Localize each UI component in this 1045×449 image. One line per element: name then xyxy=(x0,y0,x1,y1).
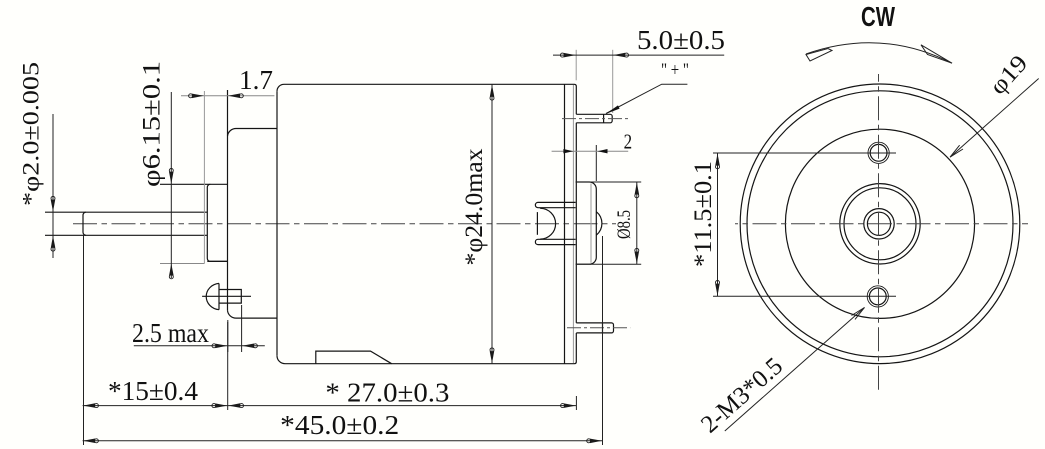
front view seam circle xyxy=(747,91,1013,357)
dim 2: dimension line xyxy=(552,150,629,152)
rear bearing bracket top flange xyxy=(535,202,575,207)
svg-text:2: 2 xyxy=(624,129,633,153)
dim 1.7 ext line (grey) xyxy=(203,91,205,264)
dim 11.5: dimension line xyxy=(717,153,719,296)
bushing centre dome xyxy=(596,212,602,235)
ext line housing face (15/27) xyxy=(227,322,229,410)
svg-text:φ6.15±0.1: φ6.15±0.1 xyxy=(139,61,166,187)
front view horizontal centerline xyxy=(735,223,1028,225)
leader "+" xyxy=(606,84,687,113)
screw hole top xyxy=(868,142,889,163)
dim phi6.15 arrows xyxy=(169,169,174,184)
front view vertical centerline xyxy=(878,74,880,392)
screw hole bottom xyxy=(867,286,888,307)
terminal bottom xyxy=(567,323,630,333)
can bottom vent notch xyxy=(316,351,392,364)
ext line 45 right xyxy=(602,236,604,445)
ext line 27 right xyxy=(575,396,577,410)
ext line shaft end (15/45) xyxy=(83,235,85,445)
can rear seam xyxy=(564,84,566,363)
front boss inner circle xyxy=(844,188,916,260)
motor can body xyxy=(277,84,576,363)
front housing (endbell) xyxy=(228,90,278,318)
dim phi24 arrows xyxy=(490,85,495,100)
svg-text:" + ": " + " xyxy=(661,60,689,81)
CW rotation arrow xyxy=(806,43,952,63)
dim 5.0 arrows xyxy=(560,53,575,58)
dim phi2.0: dimension line xyxy=(52,114,54,258)
front view mid circle (phi19) xyxy=(785,129,974,318)
endcap seam line xyxy=(572,85,574,363)
svg-text:*15±0.4: *15±0.4 xyxy=(108,376,198,406)
dim phi6.15: dimension line xyxy=(170,92,172,278)
rivet on housing xyxy=(202,283,251,309)
dim 2.5max arrows xyxy=(212,344,227,349)
shaft xyxy=(45,212,207,235)
front view outer circle xyxy=(740,84,1020,364)
dim 15/27: dimension line xyxy=(83,405,577,407)
svg-text:*φ24.0max: *φ24.0max xyxy=(461,148,488,266)
dim 5.0: ext lines xyxy=(575,50,577,81)
dim 2 arrows xyxy=(563,149,607,153)
dim 27 arrows xyxy=(228,403,243,408)
dim 45: dimension line xyxy=(83,440,603,442)
dim phi24: dimension line xyxy=(491,84,493,363)
svg-text:* 27.0±0.3: * 27.0±0.3 xyxy=(325,377,449,407)
svg-text:*11.5±0.1: *11.5±0.1 xyxy=(690,161,717,267)
shaft circle xyxy=(867,212,890,235)
leader 2-M3 xyxy=(725,308,865,432)
dim phi2.0 arrows xyxy=(51,196,56,211)
dim 8.5 arrows xyxy=(635,183,640,198)
leader phi19 xyxy=(950,79,1039,158)
dim 2.5max: ext lines xyxy=(228,305,242,352)
wire: side-view main centerline xyxy=(73,223,616,225)
terminal top xyxy=(562,114,628,123)
front boss outer circle xyxy=(840,184,920,264)
dim 8.5: ext lines xyxy=(576,182,641,264)
svg-text:*φ2.0±0.005: *φ2.0±0.005 xyxy=(19,62,44,206)
svg-text:2.5 max: 2.5 max xyxy=(132,318,209,348)
svg-text:CW: CW xyxy=(861,1,895,32)
dim 11.5 arrows xyxy=(715,154,720,169)
dim 15 arrows xyxy=(83,403,98,408)
dim 45 arrows xyxy=(83,439,98,444)
svg-text:Ø8.5: Ø8.5 xyxy=(614,210,635,239)
svg-text:*45.0±0.2: *45.0±0.2 xyxy=(280,410,399,440)
dim 5.0: dimension line xyxy=(553,54,724,56)
dim 11.5: ext lines xyxy=(713,153,896,296)
shaft collar circle xyxy=(864,209,894,239)
rear bearing dome xyxy=(537,208,555,240)
dim 1.7: dimension line xyxy=(181,95,274,97)
svg-text:1.7: 1.7 xyxy=(239,65,273,95)
dim 2: ext line xyxy=(595,145,597,181)
bearing hub (phi 6.15) xyxy=(160,184,228,263)
rear bearing bracket bottom flange xyxy=(535,239,575,244)
dim 8.5: dimension line xyxy=(636,182,638,264)
dim 1.7 arrows xyxy=(189,94,204,99)
svg-text:5.0±0.5: 5.0±0.5 xyxy=(637,25,725,55)
dim 2.5max: dimension line xyxy=(134,345,265,347)
rear bushing xyxy=(576,182,602,264)
